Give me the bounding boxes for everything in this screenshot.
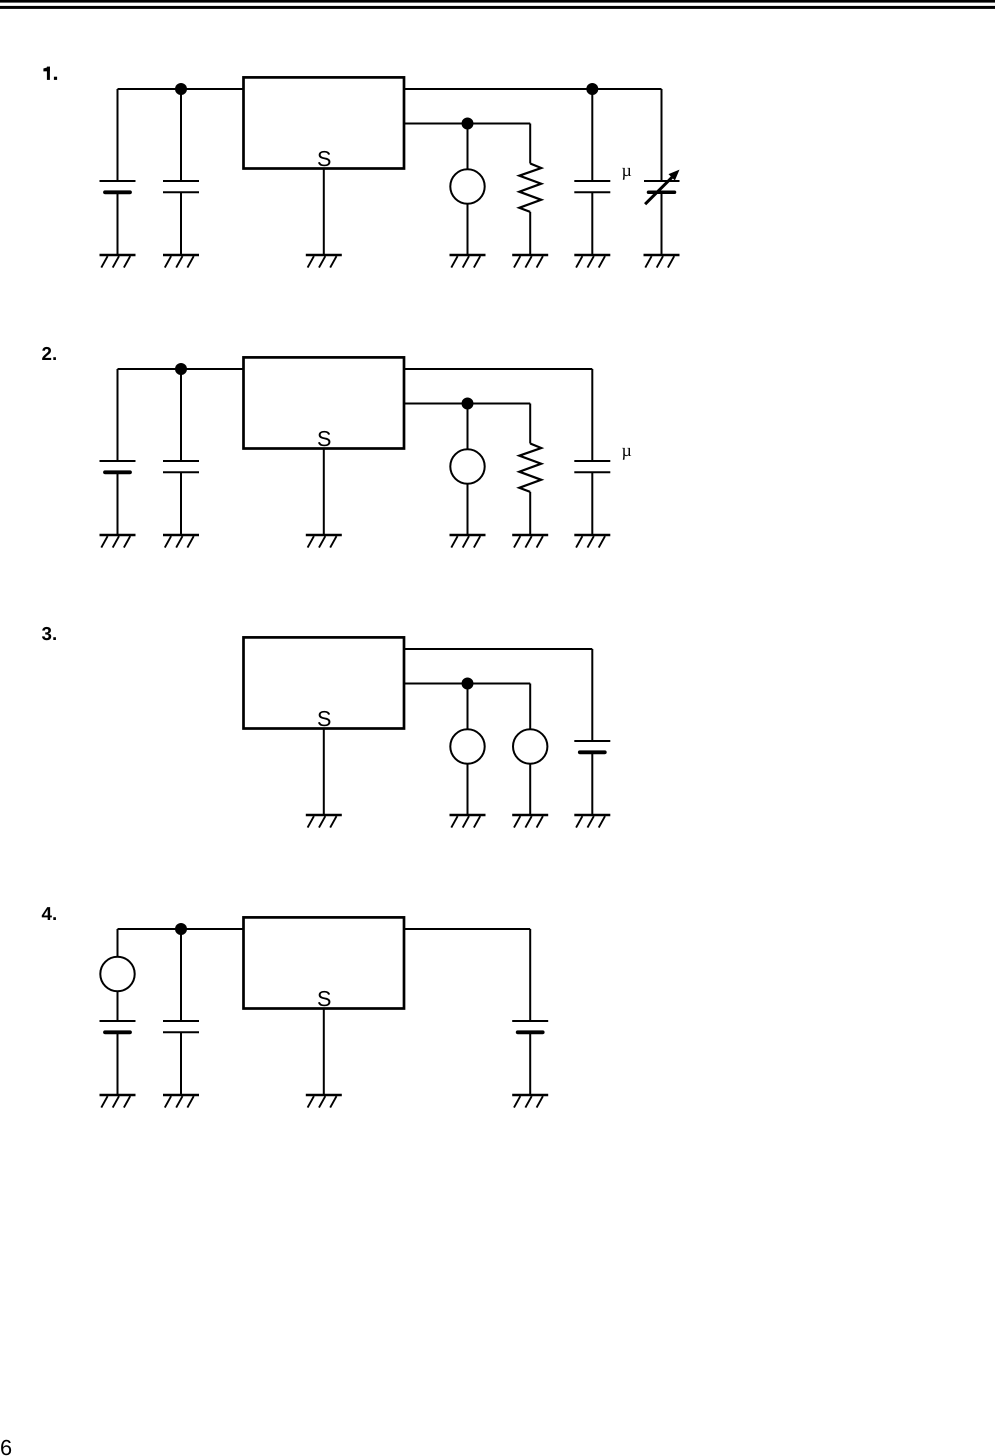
lamp X1	[450, 169, 484, 203]
wire	[529, 492, 531, 535]
junction node	[586, 83, 598, 95]
ground	[100, 1095, 136, 1108]
ground	[574, 255, 610, 268]
svg-text:S: S	[317, 986, 331, 1011]
wire	[529, 684, 531, 730]
wire S pin	[323, 729, 325, 816]
ground	[306, 535, 342, 548]
variable capacitor C4	[644, 170, 680, 205]
junction node	[462, 398, 474, 410]
wire	[529, 929, 531, 1021]
ground	[574, 535, 610, 548]
ground	[450, 255, 486, 268]
wire S pin	[323, 169, 325, 256]
capacitor C6	[163, 461, 199, 472]
svg-text:S: S	[317, 426, 331, 451]
svg-text:3.: 3.	[42, 623, 58, 644]
svg-text:6: 6	[0, 1435, 12, 1456]
wire top rail right	[404, 88, 662, 90]
circuit 1 number label	[43, 67, 57, 80]
lamp X4	[513, 729, 547, 763]
ground	[512, 535, 548, 548]
wire	[117, 192, 119, 255]
wire top rail left	[118, 368, 244, 370]
header rule (thin)	[0, 6, 995, 9]
wire	[529, 124, 531, 164]
capacitor (electrolytic) C8	[574, 741, 610, 752]
wire	[529, 404, 531, 444]
oscillator block U1	[244, 77, 405, 168]
wire	[529, 212, 531, 255]
wire	[467, 124, 469, 170]
wire	[591, 369, 593, 461]
lamp X2	[450, 449, 484, 483]
wire	[180, 472, 182, 535]
wire	[529, 1032, 531, 1095]
wire pin 2 rail	[404, 403, 530, 405]
oscillator block U4	[244, 917, 405, 1008]
ground	[306, 255, 342, 268]
wire	[591, 752, 593, 815]
oscillator block U3	[244, 637, 405, 728]
wire top rail right	[404, 368, 592, 370]
ground	[450, 535, 486, 548]
ground	[306, 1095, 342, 1108]
wire	[467, 484, 469, 535]
capacitor (electrolytic) C5	[100, 461, 136, 472]
oscillator block U2	[244, 357, 405, 448]
svg-text:µ: µ	[622, 160, 632, 180]
wire	[661, 89, 663, 181]
svg-text:µ: µ	[622, 440, 632, 460]
wire	[661, 192, 663, 255]
ground	[163, 1095, 199, 1108]
wire	[180, 929, 182, 1021]
resistor R1	[519, 164, 541, 212]
wire S pin	[323, 449, 325, 536]
wire top rail left	[118, 928, 244, 930]
svg-text:4.: 4.	[42, 903, 58, 924]
wire	[591, 649, 593, 741]
resistor R2	[519, 444, 541, 492]
capacitor C10	[163, 1021, 199, 1032]
wire	[529, 764, 531, 815]
svg-text:S: S	[317, 706, 331, 731]
wire	[180, 369, 182, 461]
wire	[117, 991, 119, 1021]
wire	[117, 89, 119, 181]
wire	[467, 764, 469, 815]
lamp X3	[450, 729, 484, 763]
wire	[117, 929, 119, 957]
capacitor (electrolytic) C1	[100, 181, 136, 192]
wire top rail right	[404, 648, 592, 650]
capacitor C3	[574, 181, 610, 192]
ground	[512, 815, 548, 828]
junction node	[462, 678, 474, 690]
junction node	[175, 83, 187, 95]
svg-text:S: S	[317, 146, 331, 171]
ground	[306, 815, 342, 828]
wire	[117, 369, 119, 461]
header rule (thick)	[0, 0, 995, 3]
wire	[180, 89, 182, 181]
wire pin 2 rail	[404, 683, 530, 685]
ground	[163, 255, 199, 268]
capacitor C2	[163, 181, 199, 192]
junction node	[462, 118, 474, 130]
ground	[100, 255, 136, 268]
wire	[117, 1032, 119, 1095]
ground	[512, 255, 548, 268]
wire pin 2 rail	[404, 123, 530, 125]
ground	[450, 815, 486, 828]
svg-text:2.: 2.	[42, 343, 58, 364]
capacitor (electrolytic) C9	[100, 1021, 136, 1032]
wire	[180, 192, 182, 255]
lamp X5	[100, 957, 134, 991]
wire S pin	[323, 1009, 325, 1096]
wire top rail left	[118, 88, 244, 90]
ground	[100, 535, 136, 548]
capacitor (electrolytic) C11	[512, 1021, 548, 1032]
wire output rail	[404, 928, 530, 930]
wire	[467, 404, 469, 450]
wire	[591, 472, 593, 535]
junction node	[175, 923, 187, 935]
ground	[512, 1095, 548, 1108]
ground	[163, 535, 199, 548]
ground	[644, 255, 680, 268]
wire	[591, 192, 593, 255]
wire	[591, 89, 593, 181]
wire	[180, 1032, 182, 1095]
ground	[574, 815, 610, 828]
wire	[117, 472, 119, 535]
wire	[467, 204, 469, 255]
junction node	[175, 363, 187, 375]
wire	[467, 684, 469, 730]
capacitor C7	[574, 461, 610, 472]
